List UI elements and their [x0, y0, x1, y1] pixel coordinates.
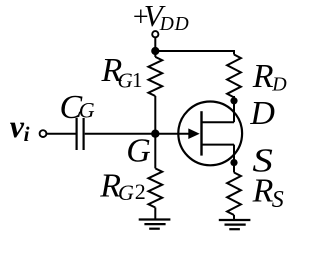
label RD [252, 58, 287, 96]
svg-text:D: D [249, 95, 275, 132]
wire VDD junction to right rail [155, 51, 234, 55]
svg-text:D: D [271, 74, 287, 96]
svg-text:1: 1 [132, 68, 143, 92]
node VDD junction dot [151, 47, 159, 55]
ground (right, below RS) [219, 220, 251, 229]
svg-text:G: G [126, 132, 151, 169]
wire VDD terminal to junction [154, 37, 156, 51]
ground (left, below RG2) [139, 220, 171, 229]
label RS [252, 172, 284, 213]
input terminal vi (open circle) [40, 130, 47, 137]
label S (source) [252, 142, 273, 179]
svg-text:G: G [118, 68, 133, 92]
wire VDD junction to RG1 top [154, 51, 156, 57]
svg-text:R: R [252, 58, 274, 95]
svg-text:DD: DD [159, 14, 190, 35]
resistor RS [227, 173, 241, 216]
svg-text:S: S [272, 187, 284, 213]
resistor RG2 [148, 168, 162, 207]
label vi input [10, 108, 30, 146]
svg-text:R: R [252, 172, 274, 209]
wire RS bottom to ground [233, 215, 235, 220]
VDD terminal (open circle) [152, 31, 158, 37]
svg-text:i: i [24, 122, 30, 146]
node +VDD supply label [133, 0, 190, 35]
wire RG2 top (gate node down) [154, 134, 156, 169]
label CG [60, 89, 95, 126]
capacitor CG left plate [75, 118, 77, 150]
wire RG1 bottom to gate node [154, 96, 156, 134]
transistor drain lead (horizontal) [203, 121, 235, 123]
label RG1 [101, 52, 143, 92]
resistor RD [227, 55, 241, 98]
transistor source lead (horizontal) [203, 144, 235, 146]
wire capacitor to gate node and to transistor gate [85, 133, 191, 135]
wire RG2 bottom to ground [154, 208, 156, 220]
wire source lead down to source node [233, 145, 235, 173]
node S junction dot [230, 159, 237, 166]
svg-text:2: 2 [135, 179, 146, 204]
label G (gate node) [126, 132, 151, 169]
transistor gate bar [200, 111, 202, 155]
wire drain lead up to drain node [233, 96, 235, 122]
svg-text:v: v [10, 108, 25, 144]
capacitor CG right plate [82, 118, 84, 150]
wire input terminal to capacitor [46, 133, 75, 135]
node D junction dot [230, 97, 237, 104]
node G junction dot [151, 130, 159, 138]
svg-text:G: G [118, 180, 134, 205]
label RG2 [99, 168, 146, 206]
transistor gate arrow [188, 128, 199, 139]
resistor RG1 [148, 57, 162, 96]
label D (drain) [249, 95, 275, 132]
transistor Q1 (JFET/MOSFET) circle envelope [178, 101, 242, 165]
svg-text:G: G [79, 98, 95, 123]
